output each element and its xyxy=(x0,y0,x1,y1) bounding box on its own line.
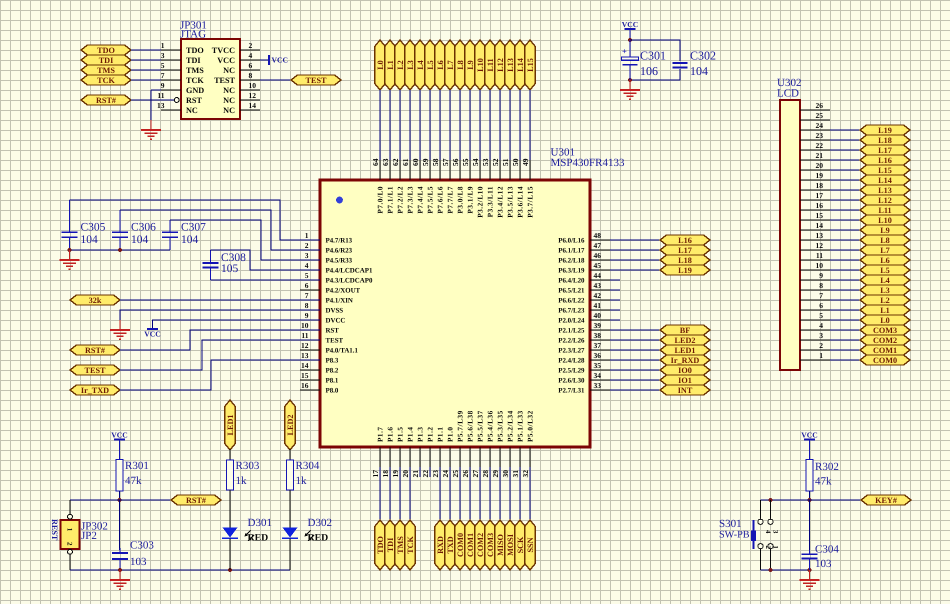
svg-text:11: 11 xyxy=(301,331,308,340)
svg-text:LED2: LED2 xyxy=(675,336,696,345)
svg-text:1k: 1k xyxy=(296,475,308,487)
svg-text:TDO: TDO xyxy=(376,536,385,554)
svg-text:L7: L7 xyxy=(880,246,890,255)
svg-text:COM2: COM2 xyxy=(873,336,897,345)
svg-text:L11: L11 xyxy=(878,206,891,215)
svg-text:22: 22 xyxy=(421,470,430,478)
svg-text:14: 14 xyxy=(249,101,257,110)
svg-text:TCK: TCK xyxy=(406,536,415,554)
svg-text:29: 29 xyxy=(491,470,500,478)
svg-text:8: 8 xyxy=(249,71,253,80)
svg-text:30: 30 xyxy=(501,470,510,478)
svg-text:L5: L5 xyxy=(426,60,435,70)
svg-text:P5.7/L39: P5.7/L39 xyxy=(457,410,465,442)
svg-text:31: 31 xyxy=(511,470,520,478)
svg-text:P4.7/R13: P4.7/R13 xyxy=(326,237,353,244)
svg-text:L8: L8 xyxy=(456,60,465,70)
svg-text:Ir_RXD: Ir_RXD xyxy=(671,356,700,365)
svg-text:LED2: LED2 xyxy=(286,415,295,436)
svg-text:L19: L19 xyxy=(878,126,892,135)
svg-text:L8: L8 xyxy=(880,236,890,245)
svg-text:1: 1 xyxy=(819,351,823,360)
svg-text:104: 104 xyxy=(131,234,149,246)
svg-text:P8.3: P8.3 xyxy=(326,357,339,364)
svg-text:20: 20 xyxy=(816,161,824,170)
svg-text:38: 38 xyxy=(594,331,602,340)
svg-text:P4.2/XOUT: P4.2/XOUT xyxy=(326,287,361,294)
svg-text:16: 16 xyxy=(301,381,309,390)
svg-text:L13: L13 xyxy=(878,186,892,195)
svg-text:P5.5/L37: P5.5/L37 xyxy=(477,410,485,442)
svg-text:18: 18 xyxy=(816,181,824,190)
svg-text:46: 46 xyxy=(594,251,602,260)
svg-text:COM3: COM3 xyxy=(486,533,495,557)
svg-text:P3.4/L12: P3.4/L12 xyxy=(497,186,505,218)
svg-text:TDI: TDI xyxy=(186,56,201,65)
svg-text:LCD: LCD xyxy=(777,88,799,100)
svg-text:NC: NC xyxy=(223,86,235,95)
svg-text:L17: L17 xyxy=(878,146,892,155)
svg-text:GND: GND xyxy=(186,86,204,95)
svg-text:P2.7/L31: P2.7/L31 xyxy=(558,387,585,394)
svg-text:42: 42 xyxy=(594,291,602,300)
svg-text:P1.1: P1.1 xyxy=(437,426,445,442)
svg-text:7: 7 xyxy=(161,71,165,80)
svg-text:P7.7/L7: P7.7/L7 xyxy=(447,186,455,214)
svg-text:P2.0/L24: P2.0/L24 xyxy=(558,317,585,324)
svg-text:RST: RST xyxy=(186,96,202,105)
svg-text:L0: L0 xyxy=(376,60,385,70)
svg-text:L14: L14 xyxy=(516,58,525,72)
svg-text:P6.7/L23: P6.7/L23 xyxy=(558,307,585,314)
svg-text:Ir_TXD: Ir_TXD xyxy=(81,386,109,395)
svg-text:51: 51 xyxy=(501,158,510,166)
svg-text:TEST: TEST xyxy=(326,337,344,344)
svg-text:P2.2/L26: P2.2/L26 xyxy=(558,337,585,344)
svg-text:54: 54 xyxy=(471,158,480,166)
svg-text:L16: L16 xyxy=(878,156,892,165)
svg-text:6: 6 xyxy=(305,281,309,290)
svg-text:59: 59 xyxy=(421,158,430,166)
svg-text:P1.2: P1.2 xyxy=(427,426,435,442)
svg-text:P2.1/L25: P2.1/L25 xyxy=(558,327,585,334)
svg-text:P2.5/L29: P2.5/L29 xyxy=(558,367,585,374)
svg-text:L16: L16 xyxy=(678,236,692,245)
svg-text:P5.2/L34: P5.2/L34 xyxy=(507,410,515,442)
svg-text:104: 104 xyxy=(81,234,99,246)
svg-text:L7: L7 xyxy=(446,60,455,70)
svg-text:64: 64 xyxy=(371,158,380,166)
svg-text:TDO: TDO xyxy=(97,46,115,55)
svg-text:P1.4: P1.4 xyxy=(407,426,415,442)
svg-text:22: 22 xyxy=(816,141,824,150)
svg-text:TXD: TXD xyxy=(446,536,455,553)
svg-text:D302: D302 xyxy=(308,517,332,529)
svg-text:23: 23 xyxy=(431,470,440,478)
svg-text:P7.2/L2: P7.2/L2 xyxy=(397,186,405,214)
svg-text:41: 41 xyxy=(594,301,602,310)
svg-text:P6.5/L21: P6.5/L21 xyxy=(558,287,585,294)
svg-text:18: 18 xyxy=(381,470,390,478)
svg-text:TCK: TCK xyxy=(97,76,115,85)
svg-text:60: 60 xyxy=(411,158,420,166)
svg-text:L13: L13 xyxy=(506,58,515,72)
svg-text:56: 56 xyxy=(451,158,460,166)
svg-text:17: 17 xyxy=(816,191,824,200)
svg-text:L3: L3 xyxy=(880,286,890,295)
svg-text:SSN: SSN xyxy=(526,537,535,552)
svg-text:20: 20 xyxy=(401,470,410,478)
svg-text:IO1: IO1 xyxy=(678,376,692,385)
svg-text:P4.5/R33: P4.5/R33 xyxy=(326,257,353,264)
svg-text:P5.1/L33: P5.1/L33 xyxy=(517,410,525,442)
svg-text:DVCC: DVCC xyxy=(326,317,346,324)
svg-text:VCC: VCC xyxy=(801,431,817,440)
svg-text:1k: 1k xyxy=(236,475,248,487)
svg-text:NC: NC xyxy=(186,106,198,115)
svg-text:P3.7/L15: P3.7/L15 xyxy=(527,186,535,218)
svg-text:VCC: VCC xyxy=(217,56,235,65)
svg-text:P6.6/L22: P6.6/L22 xyxy=(558,297,585,304)
svg-text:L17: L17 xyxy=(678,246,692,255)
svg-text:37: 37 xyxy=(594,341,602,350)
svg-text:L11: L11 xyxy=(486,58,495,71)
svg-text:P1.7: P1.7 xyxy=(377,426,385,442)
svg-text:104: 104 xyxy=(181,234,199,246)
svg-text:C301: C301 xyxy=(640,49,666,63)
svg-text:L4: L4 xyxy=(416,60,425,70)
svg-text:12: 12 xyxy=(301,341,309,350)
svg-text:33: 33 xyxy=(594,381,602,390)
svg-text:11: 11 xyxy=(816,251,823,260)
svg-text:L18: L18 xyxy=(878,136,892,145)
svg-text:35: 35 xyxy=(594,361,602,370)
svg-text:P2.3/L27: P2.3/L27 xyxy=(558,347,585,354)
svg-text:RST: RST xyxy=(326,327,340,334)
svg-text:61: 61 xyxy=(401,158,410,166)
svg-text:36: 36 xyxy=(594,351,602,360)
svg-text:L4: L4 xyxy=(880,276,890,285)
svg-text:COM2: COM2 xyxy=(476,533,485,557)
svg-text:RST#: RST# xyxy=(186,496,206,505)
svg-text:TEST: TEST xyxy=(214,76,235,85)
svg-text:COM3: COM3 xyxy=(873,326,897,335)
svg-text:L14: L14 xyxy=(878,176,892,185)
svg-text:45: 45 xyxy=(594,261,602,270)
svg-text:P5.4/L36: P5.4/L36 xyxy=(487,410,495,442)
svg-text:26: 26 xyxy=(816,101,824,110)
svg-text:VCC: VCC xyxy=(622,20,638,29)
svg-text:57: 57 xyxy=(441,158,450,166)
svg-text:2: 2 xyxy=(764,546,771,550)
svg-text:TMS: TMS xyxy=(186,66,204,75)
svg-text:63: 63 xyxy=(381,158,390,166)
svg-text:2: 2 xyxy=(305,241,309,250)
svg-text:P8.0: P8.0 xyxy=(326,387,339,394)
svg-text:SW-PB: SW-PB xyxy=(719,530,750,541)
svg-text:6: 6 xyxy=(249,61,253,70)
svg-text:P1.5: P1.5 xyxy=(397,426,405,442)
svg-text:1: 1 xyxy=(771,546,778,550)
svg-text:10: 10 xyxy=(816,261,824,270)
svg-text:11: 11 xyxy=(157,91,164,100)
svg-text:13: 13 xyxy=(816,231,824,240)
svg-text:47k: 47k xyxy=(815,476,832,488)
svg-text:C302: C302 xyxy=(690,49,716,63)
svg-text:L5: L5 xyxy=(880,266,890,275)
svg-text:R301: R301 xyxy=(125,460,149,472)
svg-text:L15: L15 xyxy=(878,166,892,175)
svg-text:52: 52 xyxy=(491,158,500,166)
svg-text:14: 14 xyxy=(816,221,824,230)
svg-text:COM1: COM1 xyxy=(466,533,475,557)
svg-text:24: 24 xyxy=(816,121,824,130)
svg-text:P2.4/L28: P2.4/L28 xyxy=(558,357,585,364)
svg-text:TVCC: TVCC xyxy=(212,46,235,55)
svg-text:3: 3 xyxy=(819,331,823,340)
svg-text:VCC: VCC xyxy=(272,56,288,65)
svg-text:34: 34 xyxy=(594,371,602,380)
svg-text:L0: L0 xyxy=(880,316,890,325)
svg-text:32k: 32k xyxy=(89,296,102,305)
svg-text:P1.0: P1.0 xyxy=(447,426,455,442)
svg-text:53: 53 xyxy=(481,158,490,166)
svg-text:NC: NC xyxy=(223,66,235,75)
svg-text:19: 19 xyxy=(816,171,824,180)
svg-text:6: 6 xyxy=(819,301,823,310)
svg-text:105: 105 xyxy=(221,263,239,275)
svg-text:P8.1: P8.1 xyxy=(326,377,339,384)
svg-text:INT: INT xyxy=(678,386,693,395)
svg-text:L6: L6 xyxy=(880,256,890,265)
svg-text:8: 8 xyxy=(819,281,823,290)
svg-text:62: 62 xyxy=(391,158,400,166)
svg-text:L3: L3 xyxy=(406,60,415,70)
svg-text:L2: L2 xyxy=(880,296,890,305)
svg-text:L19: L19 xyxy=(678,266,692,275)
svg-text:P3.1/L9: P3.1/L9 xyxy=(467,186,475,214)
svg-text:21: 21 xyxy=(411,470,420,478)
svg-text:103: 103 xyxy=(130,556,147,568)
svg-text:26: 26 xyxy=(461,470,470,478)
svg-text:2: 2 xyxy=(249,41,253,50)
svg-text:13: 13 xyxy=(301,351,309,360)
svg-text:L6: L6 xyxy=(436,60,445,70)
svg-text:REST: REST xyxy=(50,519,59,541)
svg-text:L1: L1 xyxy=(386,60,395,70)
svg-text:RST#: RST# xyxy=(85,346,105,355)
svg-text:L10: L10 xyxy=(476,58,485,72)
svg-text:9: 9 xyxy=(305,311,309,320)
svg-text:MSP430FR4133: MSP430FR4133 xyxy=(551,157,625,169)
svg-text:P3.2/L10: P3.2/L10 xyxy=(477,186,485,218)
svg-text:12: 12 xyxy=(816,241,824,250)
svg-text:P3.3/L11: P3.3/L11 xyxy=(487,186,495,217)
svg-text:L12: L12 xyxy=(496,58,505,72)
svg-text:JP2: JP2 xyxy=(81,530,97,542)
svg-text:14: 14 xyxy=(301,361,309,370)
svg-text:8: 8 xyxy=(305,301,309,310)
svg-text:S301: S301 xyxy=(719,518,742,530)
svg-text:9: 9 xyxy=(819,271,823,280)
svg-text:1: 1 xyxy=(161,41,165,50)
svg-text:L10: L10 xyxy=(878,216,892,225)
svg-text:40: 40 xyxy=(594,311,602,320)
svg-text:7: 7 xyxy=(819,291,823,300)
svg-text:43: 43 xyxy=(594,281,602,290)
svg-text:10: 10 xyxy=(249,81,257,90)
svg-text:49: 49 xyxy=(521,158,530,166)
svg-text:P4.1/XIN: P4.1/XIN xyxy=(326,297,353,304)
svg-text:C307: C307 xyxy=(181,221,206,233)
svg-text:32: 32 xyxy=(521,470,530,478)
svg-text:L12: L12 xyxy=(878,196,892,205)
svg-text:39: 39 xyxy=(594,321,602,330)
svg-text:LED1: LED1 xyxy=(675,346,696,355)
svg-text:15: 15 xyxy=(301,371,309,380)
svg-text:106: 106 xyxy=(640,64,658,78)
svg-text:TEST: TEST xyxy=(306,76,327,85)
svg-text:P3.5/L13: P3.5/L13 xyxy=(507,186,515,218)
svg-text:P7.1/L1: P7.1/L1 xyxy=(387,186,395,214)
svg-text:7: 7 xyxy=(305,291,309,300)
svg-text:C306: C306 xyxy=(131,221,156,233)
svg-text:COM0: COM0 xyxy=(873,356,897,365)
svg-text:P7.0/L0: P7.0/L0 xyxy=(377,186,385,214)
svg-text:27: 27 xyxy=(471,470,480,478)
svg-text:44: 44 xyxy=(594,271,602,280)
svg-text:C304: C304 xyxy=(815,544,839,556)
svg-text:R304: R304 xyxy=(296,460,320,472)
svg-text:P4.0/TA1.1: P4.0/TA1.1 xyxy=(326,347,359,354)
svg-text:3: 3 xyxy=(305,251,309,260)
svg-text:L15: L15 xyxy=(526,58,535,72)
svg-text:RXD: RXD xyxy=(436,536,445,554)
svg-text:24: 24 xyxy=(441,470,450,478)
svg-text:TMS: TMS xyxy=(97,66,115,75)
svg-text:TDI: TDI xyxy=(99,56,114,65)
svg-text:13: 13 xyxy=(157,101,165,110)
svg-text:47k: 47k xyxy=(125,475,142,487)
svg-text:P4.6/R23: P4.6/R23 xyxy=(326,247,353,254)
svg-text:P5.3/L35: P5.3/L35 xyxy=(497,410,505,442)
svg-text:DVSS: DVSS xyxy=(326,307,344,314)
svg-text:P7.6/L6: P7.6/L6 xyxy=(437,186,445,214)
svg-text:VCC: VCC xyxy=(111,431,127,440)
svg-text:1: 1 xyxy=(66,528,74,532)
svg-text:48: 48 xyxy=(594,231,602,240)
svg-text:P1.6: P1.6 xyxy=(387,426,395,442)
svg-text:KEY#: KEY# xyxy=(875,496,897,505)
svg-text:21: 21 xyxy=(816,151,824,160)
svg-text:BF: BF xyxy=(680,326,690,335)
svg-text:17: 17 xyxy=(371,470,380,478)
svg-text:1: 1 xyxy=(305,231,309,240)
svg-text:TEST: TEST xyxy=(85,366,106,375)
svg-text:50: 50 xyxy=(511,158,520,166)
svg-text:P6.2/L18: P6.2/L18 xyxy=(558,257,585,264)
svg-text:23: 23 xyxy=(816,131,824,140)
svg-text:C308: C308 xyxy=(221,252,246,264)
svg-text:SCK: SCK xyxy=(516,536,525,553)
svg-text:P6.1/L17: P6.1/L17 xyxy=(558,247,585,254)
svg-text:104: 104 xyxy=(690,64,708,78)
svg-text:TDI: TDI xyxy=(386,538,395,553)
svg-text:16: 16 xyxy=(816,201,824,210)
svg-text:3: 3 xyxy=(771,530,778,534)
svg-text:47: 47 xyxy=(594,241,602,250)
svg-text:L1: L1 xyxy=(880,306,890,315)
svg-text:5: 5 xyxy=(161,61,165,70)
svg-text:2: 2 xyxy=(66,542,74,546)
svg-text:MISO: MISO xyxy=(496,534,505,556)
svg-text:TDO: TDO xyxy=(186,46,204,55)
svg-text:P1.3: P1.3 xyxy=(417,426,425,442)
svg-text:P5.0/L32: P5.0/L32 xyxy=(527,410,535,442)
svg-text:4: 4 xyxy=(819,321,823,330)
svg-text:P7.4/L4: P7.4/L4 xyxy=(417,186,425,214)
svg-text:C305: C305 xyxy=(81,221,106,233)
svg-text:L2: L2 xyxy=(396,60,405,70)
svg-text:R303: R303 xyxy=(236,460,260,472)
svg-text:L9: L9 xyxy=(880,226,890,235)
svg-text:TMS: TMS xyxy=(396,536,405,554)
svg-text:4: 4 xyxy=(249,51,253,60)
svg-text:NC: NC xyxy=(223,96,235,105)
svg-text:P4.3/LCDCAP0: P4.3/LCDCAP0 xyxy=(326,277,373,284)
svg-text:P7.3/L3: P7.3/L3 xyxy=(407,186,415,214)
svg-text:4: 4 xyxy=(764,530,771,534)
svg-text:L18: L18 xyxy=(678,256,692,265)
svg-text:MOSI: MOSI xyxy=(506,534,515,556)
svg-text:3: 3 xyxy=(161,51,165,60)
svg-text:L9: L9 xyxy=(466,60,475,70)
svg-text:9: 9 xyxy=(161,81,165,90)
svg-text:P6.3/L19: P6.3/L19 xyxy=(558,267,585,274)
svg-text:5: 5 xyxy=(819,311,823,320)
svg-text:15: 15 xyxy=(816,211,824,220)
svg-text:12: 12 xyxy=(249,91,257,100)
svg-text:28: 28 xyxy=(481,470,490,478)
svg-text:C303: C303 xyxy=(130,540,154,552)
svg-text:LED1: LED1 xyxy=(226,415,235,436)
svg-text:P7.5/L5: P7.5/L5 xyxy=(427,186,435,214)
svg-text:55: 55 xyxy=(461,158,470,166)
svg-text:COM0: COM0 xyxy=(456,533,465,557)
svg-text:COM1: COM1 xyxy=(873,346,897,355)
svg-text:R302: R302 xyxy=(815,461,839,473)
svg-text:RST#: RST# xyxy=(96,96,116,105)
svg-text:5: 5 xyxy=(305,271,309,280)
svg-text:P6.4/L20: P6.4/L20 xyxy=(558,277,585,284)
svg-text:103: 103 xyxy=(815,558,832,570)
svg-text:P8.2: P8.2 xyxy=(326,367,339,374)
svg-text:P3.0/L8: P3.0/L8 xyxy=(457,186,465,214)
svg-text:10: 10 xyxy=(301,321,309,330)
svg-text:P3.6/L14: P3.6/L14 xyxy=(517,186,525,218)
svg-text:25: 25 xyxy=(816,111,824,120)
svg-text:VCC: VCC xyxy=(144,330,160,339)
svg-text:P5.6/L38: P5.6/L38 xyxy=(467,410,475,442)
svg-text:58: 58 xyxy=(431,158,440,166)
svg-text:+: + xyxy=(622,46,627,56)
svg-text:IO0: IO0 xyxy=(678,366,692,375)
svg-text:P2.6/L30: P2.6/L30 xyxy=(558,377,585,384)
svg-text:TCK: TCK xyxy=(186,76,204,85)
svg-text:19: 19 xyxy=(391,470,400,478)
svg-text:D301: D301 xyxy=(248,517,272,529)
svg-text:4: 4 xyxy=(305,261,309,270)
